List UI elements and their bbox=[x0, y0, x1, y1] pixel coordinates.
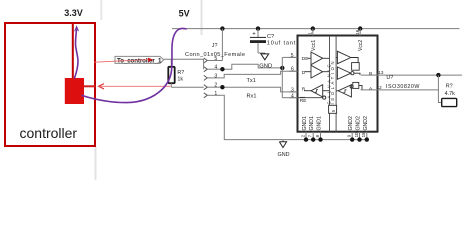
purple annotation wire to 5V bbox=[82, 28, 186, 102]
svg-text:3.3V: 3.3V bbox=[64, 8, 83, 18]
svg-text:Tx1: Tx1 bbox=[247, 78, 256, 84]
junction GND at DE/RE vertical bbox=[280, 66, 284, 70]
buffer top right bbox=[336, 51, 359, 70]
IC pin 3 R bbox=[289, 91, 298, 93]
pin 1 Vcc1 stub bbox=[312, 29, 314, 36]
faint window divider top left bbox=[100, 0, 102, 20]
svg-text:4: 4 bbox=[214, 65, 217, 71]
svg-text:16: 16 bbox=[355, 29, 360, 35]
svg-text:GND: GND bbox=[259, 63, 272, 69]
svg-text:6: 6 bbox=[291, 67, 294, 73]
pin 1 bbox=[204, 93, 208, 98]
svg-text:GND2: GND2 bbox=[348, 116, 354, 131]
hierarchical label To_controller_1 bbox=[115, 56, 164, 64]
IC pin 4 RE bbox=[289, 97, 298, 99]
resistor R? 4.7k bbox=[442, 84, 457, 107]
capacitor C? 10uF tant bbox=[250, 29, 296, 53]
pin 2 bbox=[204, 85, 208, 90]
svg-text:DE: DE bbox=[302, 56, 309, 62]
svg-text:C?: C? bbox=[267, 34, 274, 40]
svg-text:3: 3 bbox=[214, 73, 217, 79]
svg-text:5V: 5V bbox=[179, 8, 190, 18]
IC bottom GND2 pins bbox=[347, 116, 369, 142]
pin 16 Vcc2 stub bbox=[359, 29, 361, 36]
wire 5V rail bbox=[172, 28, 460, 30]
svg-text:R: R bbox=[302, 87, 306, 93]
wire GND net from pin 4 bbox=[222, 64, 282, 69]
buffer driver right (to B) bbox=[337, 67, 360, 79]
red annotation arrow to To_controller_1 bbox=[94, 58, 154, 63]
svg-text:+: + bbox=[252, 32, 256, 38]
wire DE/RE tie vertical bbox=[281, 57, 283, 97]
svg-text:U?: U? bbox=[386, 75, 393, 81]
wire pin 1 to bottom GND rail bbox=[222, 95, 368, 139]
svg-text:5: 5 bbox=[291, 53, 294, 59]
svg-text:10uf tant: 10uf tant bbox=[267, 41, 296, 47]
ground symbol below capacitor bbox=[261, 53, 269, 60]
connector J? Conn_01x05_Female bbox=[185, 43, 245, 98]
junction on 5V rail at Vcc2 bbox=[358, 26, 362, 30]
svg-text:GND2: GND2 bbox=[356, 116, 362, 131]
IC bottom GND1 pins bbox=[300, 116, 322, 142]
op-amp U? ISO30820W isolator IC body bbox=[298, 36, 378, 132]
buffer D (left) bbox=[305, 65, 330, 78]
galvanic isolation barrier bbox=[327, 36, 337, 132]
svg-text:R?: R? bbox=[177, 70, 184, 76]
svg-text:1k: 1k bbox=[177, 77, 183, 83]
buffer receiver right (from A, points left) bbox=[336, 82, 362, 97]
svg-text:GND1: GND1 bbox=[302, 116, 308, 131]
controller inner red line bbox=[72, 23, 74, 78]
pin 5 bbox=[204, 58, 208, 63]
svg-text:RE: RE bbox=[300, 98, 307, 104]
IC pin 13 B wire bbox=[361, 74, 462, 76]
svg-text:J?: J? bbox=[212, 43, 218, 49]
svg-text:5: 5 bbox=[214, 56, 217, 62]
junction on 5V rail at connector drop bbox=[220, 26, 224, 30]
wire from B junction down to resistor bbox=[438, 75, 441, 102]
faint window divider bottom bbox=[95, 146, 97, 180]
svg-text:Rx1: Rx1 bbox=[247, 94, 257, 100]
svg-text:B: B bbox=[369, 71, 372, 77]
buffer DE (left) bbox=[308, 52, 330, 65]
buffer R (left, points left) bbox=[298, 85, 330, 100]
purple annotation wire to 3.3V bbox=[74, 25, 79, 78]
svg-text:GND: GND bbox=[278, 152, 290, 158]
junction pin 4 bbox=[220, 67, 224, 71]
wire Tx1 net: pin 3 to IC pin 6 D bbox=[222, 71, 297, 78]
svg-text:Vcc2: Vcc2 bbox=[358, 40, 364, 51]
faint window divider top right bbox=[201, 0, 203, 35]
controller box (red annotation) bbox=[5, 23, 95, 146]
junction on B wire bbox=[436, 73, 440, 77]
svg-text:3: 3 bbox=[291, 87, 294, 93]
svg-text:2: 2 bbox=[214, 83, 217, 89]
junction on 5V rail at capacitor bbox=[256, 26, 260, 30]
svg-text:GND1: GND1 bbox=[309, 116, 315, 131]
svg-text:ISO30820W: ISO30820W bbox=[386, 84, 420, 90]
IC pin 12 A wire bbox=[361, 89, 439, 91]
svg-text:D: D bbox=[302, 70, 306, 76]
IC pin 6 D bbox=[289, 70, 298, 72]
wire resistor bottom to connector pin 2 bbox=[171, 86, 204, 88]
svg-text:1: 1 bbox=[214, 91, 217, 97]
svg-text:ISOLATION: ISOLATION bbox=[330, 62, 335, 105]
svg-text:4.7k: 4.7k bbox=[445, 91, 455, 97]
IC pin 5 DE bbox=[289, 56, 298, 58]
svg-text:10: 10 bbox=[354, 132, 359, 137]
junction on 5V rail at Vcc1 bbox=[311, 26, 315, 30]
svg-text:15: 15 bbox=[361, 132, 366, 137]
svg-text:Vcc1: Vcc1 bbox=[311, 40, 317, 51]
svg-text:13: 13 bbox=[378, 70, 384, 75]
wire to IC pin 5 DE bbox=[282, 56, 297, 58]
svg-text:controller: controller bbox=[20, 125, 78, 141]
svg-text:12: 12 bbox=[377, 85, 383, 90]
svg-text:GND1: GND1 bbox=[317, 116, 323, 131]
ground symbol bottom bbox=[278, 140, 290, 158]
junction pin 2 bbox=[220, 85, 224, 89]
svg-text:1: 1 bbox=[308, 32, 313, 35]
pin 3 bbox=[204, 75, 208, 80]
svg-text:GND2: GND2 bbox=[363, 116, 369, 131]
resistor R? 1k bbox=[168, 59, 184, 87]
pin 4 bbox=[204, 67, 208, 72]
wire 5V drop to connector pin5 bbox=[221, 29, 223, 61]
filled red block (MCU) bbox=[65, 78, 84, 104]
wire to IC pin 4 RE bbox=[282, 97, 297, 99]
svg-text:4: 4 bbox=[291, 93, 294, 99]
svg-text:R?: R? bbox=[446, 84, 453, 90]
red annotation arrow into controller bbox=[84, 84, 171, 89]
wire Rx1 net: pin 2 to IC pin 3 R bbox=[222, 87, 297, 92]
wire from label to connector pin 4 bbox=[164, 59, 204, 69]
